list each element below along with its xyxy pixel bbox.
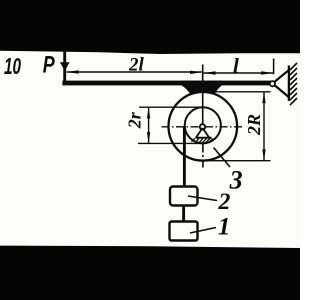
svg-text:2R: 2R	[244, 114, 264, 136]
rope upper	[183, 127, 186, 187]
center extension line	[202, 65, 204, 81]
svg-text:2l: 2l	[128, 54, 145, 75]
pivot axle	[200, 124, 205, 129]
svg-text:2r: 2r	[125, 111, 145, 129]
svg-text:l: l	[233, 53, 239, 77]
svg-text:10: 10	[4, 54, 21, 80]
dimension line 2l	[66, 70, 202, 74]
vertical center line lower	[202, 144, 204, 168]
pivot hatching	[192, 138, 213, 143]
pulley inner circle	[185, 107, 221, 143]
wall hatching	[290, 63, 297, 105]
leader 3	[214, 148, 231, 168]
bracket fillet	[182, 81, 223, 96]
svg-text:3: 3	[229, 166, 243, 195]
beam	[62, 81, 271, 86]
rope middle	[182, 206, 185, 223]
dimension 2r extension top	[139, 106, 203, 108]
dimension 2R extension top	[210, 91, 271, 93]
svg-text:P: P	[43, 52, 56, 78]
svg-text:1: 1	[218, 214, 231, 241]
horizontal center line	[162, 126, 245, 128]
dimension 2r extension bottom	[138, 142, 203, 144]
load 2	[170, 187, 198, 206]
support wall line	[288, 66, 290, 102]
right extension line	[273, 59, 275, 75]
load 1	[170, 222, 198, 241]
pivot triangle	[195, 128, 211, 138]
top black band	[0, 0, 300, 54]
vertical center line upper	[202, 85, 204, 125]
dimension line 2R	[262, 92, 265, 161]
pin	[270, 81, 275, 86]
pulley outer circle	[169, 92, 238, 161]
dimension line l	[204, 71, 274, 74]
bottom black band	[0, 246, 300, 300]
dimension line 2r	[147, 107, 150, 143]
leader 2	[188, 196, 217, 201]
support triangle	[273, 70, 289, 97]
dimension 2R extension bottom	[203, 160, 271, 162]
leader 1	[190, 228, 216, 234]
svg-text:2: 2	[218, 189, 231, 215]
force P arrow	[60, 51, 70, 84]
